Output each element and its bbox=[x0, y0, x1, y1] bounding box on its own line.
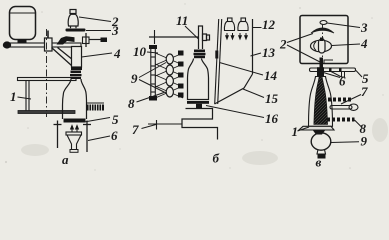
hopper bell 2 bbox=[238, 18, 248, 31]
brush bar 8 bbox=[327, 118, 355, 122]
callout line 2 bbox=[79, 17, 111, 22]
lever arm bbox=[5, 43, 81, 47]
rail cap top bbox=[149, 45, 157, 49]
center line a bbox=[46, 29, 48, 118]
svg-text:11: 11 bbox=[176, 13, 188, 28]
svg-text:10: 10 bbox=[133, 44, 147, 59]
table leg left bbox=[26, 81, 29, 111]
callout line 4 bbox=[82, 53, 113, 57]
rinse nozzle bell bbox=[68, 10, 78, 29]
carrier tick 1 bbox=[329, 68, 332, 73]
jet ellipse 1 bbox=[166, 54, 173, 64]
jet spray X lines bbox=[155, 53, 183, 98]
carrier tick 2 bbox=[339, 68, 342, 73]
callout line 8v bbox=[355, 120, 362, 127]
cam inner curl bbox=[314, 42, 316, 51]
wall nub bbox=[215, 51, 218, 59]
follower stem bbox=[320, 58, 324, 68]
tank bbox=[10, 7, 36, 40]
rod end block bbox=[101, 38, 108, 43]
svg-text:4: 4 bbox=[360, 36, 368, 51]
callout line 7v bbox=[341, 95, 361, 105]
svg-text:6: 6 bbox=[111, 128, 118, 143]
bottle a base band bbox=[64, 119, 86, 123]
svg-text:14: 14 bbox=[264, 68, 278, 83]
carrier pin bbox=[342, 72, 345, 78]
bottle a cap rings bbox=[70, 71, 82, 80]
jet ellipse 3 bbox=[166, 76, 173, 86]
callout line 16 bbox=[206, 106, 264, 118]
svg-text:9: 9 bbox=[131, 71, 138, 86]
center line v bbox=[322, 25, 324, 77]
filling pipe bbox=[199, 26, 210, 49]
callout line 1 bbox=[18, 97, 32, 99]
nozzle nubs bbox=[178, 51, 184, 98]
callout line 10 bbox=[147, 52, 158, 53]
jet ellipse 2 bbox=[166, 65, 173, 75]
dark bottle cap bbox=[317, 67, 324, 76]
svg-text:15: 15 bbox=[265, 91, 279, 106]
callout line 5v bbox=[356, 71, 362, 78]
svg-text:в: в bbox=[316, 155, 322, 170]
hopper chute bbox=[215, 74, 253, 104]
callout line 13 bbox=[251, 53, 262, 56]
callout line 2 down bbox=[287, 45, 321, 63]
callout line 7b bbox=[142, 125, 157, 129]
callout line 11 bbox=[185, 26, 199, 39]
chamber bell body bbox=[67, 135, 81, 150]
bell arrows bbox=[226, 33, 248, 39]
callout line 3v bbox=[327, 23, 360, 28]
arm left pivot blob bbox=[3, 41, 11, 48]
hopper right wall bbox=[252, 19, 254, 74]
svg-text:1: 1 bbox=[10, 89, 17, 104]
svg-text:б: б bbox=[213, 151, 220, 166]
paddle bar bbox=[330, 104, 358, 110]
conveyor stairs bbox=[182, 109, 218, 140]
hopper left wall bbox=[215, 19, 222, 104]
svg-text:5: 5 bbox=[112, 112, 119, 127]
bulb base bbox=[318, 154, 326, 159]
bulb neck bbox=[317, 150, 326, 155]
callout line 6v right bbox=[331, 72, 343, 78]
callout line 9 up bbox=[139, 63, 166, 78]
callout line 6a bbox=[88, 136, 110, 141]
spray arrow right bbox=[76, 126, 79, 133]
bottle foot plate bbox=[299, 126, 334, 130]
nozzle plate bbox=[66, 29, 86, 32]
conveyor rod bbox=[148, 123, 182, 125]
callout line 15 bbox=[243, 89, 264, 98]
pivot pin bbox=[47, 31, 49, 39]
table top bbox=[18, 78, 77, 81]
head box bbox=[300, 16, 348, 64]
cam ellipse bbox=[311, 40, 332, 52]
svg-text:4: 4 bbox=[113, 46, 121, 61]
callout line 6v left bbox=[320, 72, 340, 78]
cam follower capsule bbox=[319, 39, 326, 53]
jet rail bbox=[151, 46, 156, 100]
callout line 2 up bbox=[287, 34, 313, 43]
foot knob bbox=[313, 131, 325, 135]
callout line 3 bbox=[86, 30, 111, 32]
pipe holder arm bbox=[149, 36, 199, 38]
chamber bell foot bbox=[70, 150, 78, 153]
bracket column bbox=[72, 47, 82, 68]
svg-text:16: 16 bbox=[265, 111, 279, 126]
bottle b body bbox=[188, 59, 209, 100]
callout line 5a bbox=[84, 118, 110, 123]
tank foot bbox=[18, 40, 27, 44]
follower top nub bbox=[320, 38, 324, 42]
callout line 4v bbox=[332, 44, 360, 46]
callout line 9v bbox=[331, 141, 359, 144]
svg-text:2: 2 bbox=[279, 37, 287, 52]
svg-text:8: 8 bbox=[128, 96, 135, 111]
rod tick bbox=[156, 120, 158, 130]
clamp lever bbox=[57, 36, 75, 44]
svg-text:9: 9 bbox=[361, 134, 368, 149]
callout line 14 bbox=[220, 63, 264, 76]
spray arrow left bbox=[71, 126, 74, 133]
table shelf bbox=[18, 111, 75, 114]
bottle outline bbox=[309, 77, 333, 127]
jet ellipse 4 bbox=[166, 87, 173, 97]
rod hanger vertical bbox=[85, 33, 87, 47]
callout line 8 bbox=[137, 93, 165, 103]
svg-text:6: 6 bbox=[339, 74, 346, 89]
stem step bracket bbox=[324, 60, 333, 64]
svg-text:3: 3 bbox=[360, 20, 368, 35]
knob bbox=[320, 21, 327, 25]
svg-text:12: 12 bbox=[262, 17, 276, 32]
bottle b platform T bbox=[187, 101, 209, 104]
svg-text:13: 13 bbox=[262, 45, 276, 60]
callout line 9 down bbox=[139, 80, 166, 94]
lamp bulb bbox=[311, 133, 331, 150]
bracket web diagonal 2 bbox=[58, 48, 74, 61]
pipe holder tick bbox=[154, 30, 156, 44]
rinse chamber walls bbox=[54, 121, 92, 153]
carrier bar bbox=[310, 68, 356, 72]
svg-text:3: 3 bbox=[111, 23, 119, 38]
bottle a body bbox=[63, 79, 87, 119]
bracket web diagonal bbox=[52, 48, 72, 66]
svg-text:а: а bbox=[62, 152, 69, 167]
umbrella crescent bbox=[311, 28, 334, 33]
rod hanger collar bbox=[83, 37, 90, 44]
callout line 1v bbox=[298, 127, 310, 131]
svg-text:7: 7 bbox=[361, 84, 368, 99]
svg-text:1: 1 bbox=[292, 124, 299, 139]
chamber bell rim bbox=[66, 132, 82, 135]
callout line 12 bbox=[253, 27, 262, 29]
dark bottle core bbox=[314, 77, 328, 125]
brush bar 7 bbox=[328, 98, 351, 102]
pivot collar bbox=[45, 38, 53, 51]
rod horizontal bbox=[89, 39, 101, 41]
bracket foot band bbox=[71, 67, 82, 70]
rail cap bottom bbox=[149, 96, 157, 101]
bottle b cap rings bbox=[194, 50, 206, 59]
svg-text:7: 7 bbox=[132, 122, 139, 137]
paper speckles bbox=[5, 3, 384, 170]
thread block bbox=[86, 103, 104, 111]
hopper bell 1 bbox=[224, 18, 234, 31]
